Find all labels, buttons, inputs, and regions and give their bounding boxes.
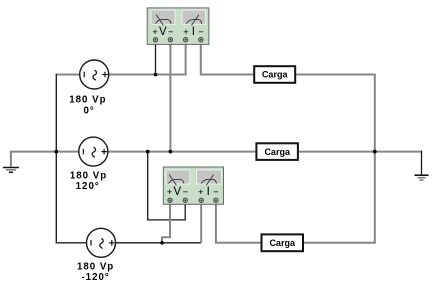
junction: neutral trunk at middle row	[54, 150, 58, 154]
wire: right return bus vertical	[374, 74, 376, 243]
AC source V2 180Vp 120deg	[79, 137, 108, 166]
svg-text:V: V	[173, 186, 181, 198]
pin XWM1 I-	[199, 38, 203, 42]
svg-text:-120°: -120°	[81, 272, 109, 283]
svg-text:+: +	[152, 27, 158, 38]
wire: left ground stub and neutral row to source V2	[11, 151, 79, 167]
svg-text:0°: 0°	[83, 106, 94, 117]
wire: XWM1 V+ lead (black)	[155, 40, 157, 75]
pin XWM2 V-	[183, 198, 187, 202]
svg-text:+: +	[183, 27, 189, 38]
svg-text:120°: 120°	[76, 181, 100, 192]
ground GND right	[415, 175, 429, 180]
wire: XWM1 V- lead down to phase B row	[169, 40, 171, 152]
pin XWM2 I-	[214, 198, 218, 202]
svg-text:I: I	[207, 186, 210, 198]
wire: XWM2 V+ lead with jog down to phase C	[162, 204, 170, 243]
pin XWM2 V+	[168, 198, 172, 202]
svg-text:Carga: Carga	[264, 147, 291, 157]
wire: source V1 output to wattmeter XWM1 I+	[109, 41, 186, 75]
pin XWM2 I+	[199, 198, 203, 202]
junction: XWM2 V+ tap on phase C	[160, 241, 164, 245]
wattmeter XWM2	[163, 167, 223, 204]
wire: phase A left stub from neutral trunk to source V1	[56, 74, 80, 76]
junction: return bus at middle row	[373, 150, 377, 154]
junction: XWM1 V- tap on phase B	[169, 150, 173, 154]
pin XWM1 V-	[168, 38, 172, 42]
wattmeter XWM1	[147, 8, 209, 45]
wire: Carga1 output to right return bus	[296, 74, 375, 76]
wire: XWM2 V- lead (black) from phase B row	[148, 152, 186, 220]
wire: XWM2 I+ lead	[200, 204, 202, 243]
wire: neutral trunk vertical (V1/V2/V3 common)	[56, 74, 87, 243]
svg-text:180 Vp: 180 Vp	[77, 262, 114, 273]
svg-text:Carga: Carga	[262, 70, 289, 80]
wire: Carga2 output to right ground	[299, 151, 422, 153]
svg-text:−: −	[198, 27, 204, 38]
junction: XWM2 V- tap on phase B	[146, 150, 150, 154]
AC source V3 180Vp -120deg	[87, 228, 116, 257]
svg-text:180 Vp: 180 Vp	[69, 95, 106, 106]
wire: Carga3 output to return bus	[304, 242, 376, 244]
AC source V1 180Vp 0deg	[80, 60, 109, 89]
load Carga 2	[256, 143, 298, 160]
svg-text:−: −	[168, 27, 174, 38]
load Carga 1	[254, 66, 295, 83]
svg-text:+: +	[198, 187, 204, 198]
svg-text:Carga: Carga	[269, 238, 296, 248]
wire: source V3 output (phase C) to XWM2 I+	[116, 242, 202, 244]
load Carga 3	[262, 234, 304, 251]
svg-text:I: I	[192, 26, 195, 38]
wire: XWM2 I- to load Carga3	[216, 204, 261, 243]
wire: source V2 output (phase B) to load Carga2	[108, 151, 255, 153]
svg-text:−: −	[183, 187, 189, 198]
ground GND left	[3, 168, 19, 173]
svg-text:V: V	[159, 26, 167, 38]
svg-text:−: −	[213, 187, 219, 198]
wire: right ground stub	[421, 151, 423, 175]
junction: XWM1 V+ tap on phase A	[154, 73, 158, 77]
wire: XWM1 I- to load Carga1	[201, 41, 253, 75]
svg-text:+: +	[167, 187, 173, 198]
pin XWM1 V+	[153, 38, 157, 42]
pin XWM1 I+	[183, 38, 187, 42]
